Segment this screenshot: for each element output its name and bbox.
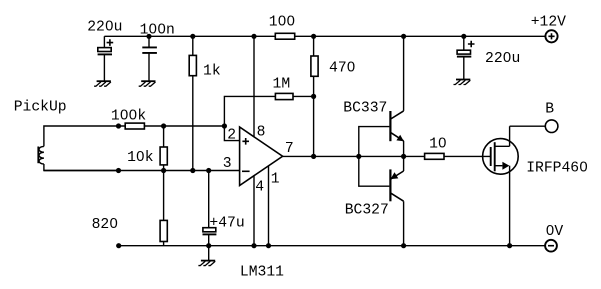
svg-text:10: 10 — [429, 137, 447, 153]
wire pin2 stub — [224, 126, 239, 141]
svg-text:PickUp: PickUp — [14, 99, 67, 115]
op-amp minus sign — [242, 170, 250, 172]
svg-text:4: 4 — [255, 179, 264, 195]
resistor 10k — [160, 126, 167, 171]
wire top rail left — [104, 35, 275, 37]
node dot output 470 — [311, 154, 316, 159]
node dot output base-split — [356, 154, 361, 159]
node dot bottom mosfet — [507, 243, 512, 248]
node dot 100n on rail — [146, 34, 151, 39]
svg-text:100k: 100k — [111, 109, 146, 125]
svg-text:BC327: BC327 — [345, 203, 389, 219]
resistor 100k with row2 wires — [119, 123, 225, 129]
wire to B terminal — [510, 125, 546, 127]
op-amp plus sign — [242, 138, 249, 145]
terminal 0V — [545, 240, 557, 252]
capacitor 100n — [142, 36, 157, 81]
op-amp LM311 triangle — [240, 127, 283, 186]
svg-text:1k: 1k — [203, 64, 221, 80]
zero-dot white patches (font fixup, decorative) — [108, 18, 585, 231]
ground under 220u right — [454, 80, 471, 85]
wire pin4 column — [253, 176, 255, 246]
node dot row2 right — [222, 123, 227, 128]
svg-text:820: 820 — [92, 217, 118, 233]
wire pin8 column — [253, 36, 255, 137]
svg-text:+47u: +47u — [209, 216, 244, 232]
terminal B — [545, 120, 558, 133]
terminal +12V — [545, 30, 557, 42]
svg-text:470: 470 — [329, 60, 355, 76]
capacitor 220u electrolytic left — [98, 36, 114, 81]
ground under 100n — [139, 81, 156, 86]
resistor 100 — [275, 33, 294, 39]
wire row3 — [44, 170, 240, 172]
wire top rail right — [295, 35, 546, 37]
pickup coil loop — [38, 126, 118, 171]
svg-text:7: 7 — [285, 141, 294, 157]
node dot pin8 on rail — [251, 34, 256, 39]
node dot BC337 collector on rail — [401, 34, 406, 39]
node dot row2 mid — [161, 123, 166, 128]
svg-text:10k: 10k — [127, 150, 154, 166]
svg-text:100: 100 — [269, 15, 295, 31]
transistor BC327 PNP — [359, 156, 404, 245]
svg-text:220u: 220u — [485, 51, 520, 67]
svg-text:B: B — [545, 101, 554, 117]
wire pin1 column — [268, 166, 270, 246]
resistor 10 — [425, 153, 490, 159]
node dot bottom left end — [116, 243, 121, 248]
node dot row2 left — [116, 123, 121, 128]
svg-text:0V: 0V — [546, 224, 564, 240]
svg-text:1M: 1M — [273, 76, 291, 92]
resistor 1k — [189, 36, 196, 170]
node dot 1k on rail — [190, 34, 195, 39]
node dot bottom pin4 — [251, 243, 256, 248]
ground at bottom rail — [198, 246, 215, 266]
resistor 1M with feedback wires — [224, 93, 313, 126]
node dot row3 d — [206, 168, 211, 173]
node dot output emitters — [401, 154, 406, 159]
capacitor 220u electrolytic right — [457, 36, 475, 79]
wire bottom rail — [119, 245, 546, 247]
transistor BC337 NPN — [359, 36, 404, 156]
node dot row3 a — [116, 168, 121, 173]
resistor 470 — [311, 36, 318, 156]
wire output row pin7 — [283, 155, 425, 157]
node dot bottom pin1 — [266, 243, 271, 248]
svg-text:LM311: LM311 — [240, 264, 284, 280]
node dot row3 c — [190, 168, 195, 173]
ground under 220u left — [94, 81, 111, 86]
node dot 1M right — [311, 94, 316, 99]
node dot 470 on rail — [311, 34, 316, 39]
svg-text:+12V: +12V — [531, 14, 566, 30]
svg-text:2: 2 — [227, 128, 236, 144]
node dot bottom BC327 — [401, 243, 406, 248]
svg-text:220u: 220u — [87, 19, 122, 35]
capacitor 47u electrolytic — [203, 171, 217, 246]
svg-text:100n: 100n — [140, 23, 175, 39]
svg-text:BC337: BC337 — [343, 101, 387, 117]
svg-text:8: 8 — [257, 125, 266, 141]
node dot bottom 47u — [206, 243, 211, 248]
node dot 220u right on rail — [461, 34, 466, 39]
svg-text:IRFP460: IRFP460 — [526, 161, 588, 177]
mosfet IRFP460 — [483, 126, 519, 246]
node dot row3 b — [161, 168, 166, 173]
svg-text:1: 1 — [271, 171, 280, 187]
resistor 820 — [160, 171, 167, 246]
svg-text:3: 3 — [223, 156, 232, 172]
